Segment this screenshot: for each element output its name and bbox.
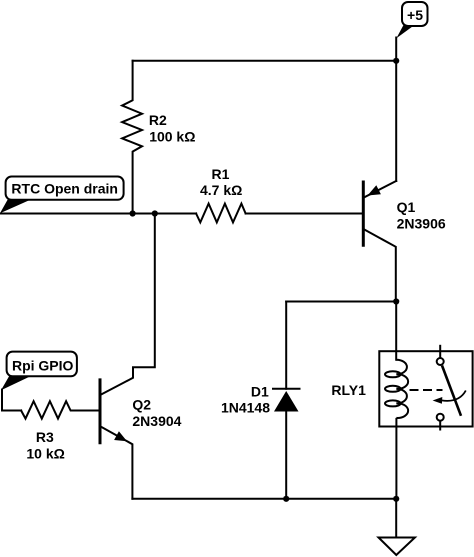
svg-text:R3: R3: [36, 429, 54, 445]
svg-text:Q2: Q2: [132, 397, 151, 413]
svg-text:RTC Open drain: RTC Open drain: [11, 181, 118, 197]
svg-text:D1: D1: [251, 383, 269, 399]
svg-text:100 kΩ: 100 kΩ: [149, 128, 195, 144]
svg-text:R1: R1: [212, 166, 230, 182]
svg-text:R2: R2: [149, 112, 167, 128]
svg-text:Q1: Q1: [397, 199, 416, 215]
svg-text:10 kΩ: 10 kΩ: [26, 446, 64, 462]
svg-text:4.7 kΩ: 4.7 kΩ: [200, 182, 242, 198]
svg-text:Rpi GPIO: Rpi GPIO: [12, 358, 74, 374]
svg-text:RLY1: RLY1: [331, 382, 366, 398]
svg-text:1N4148: 1N4148: [221, 400, 270, 416]
svg-text:2N3906: 2N3906: [397, 215, 446, 231]
svg-text:2N3904: 2N3904: [132, 413, 181, 429]
svg-text:+5: +5: [407, 7, 423, 23]
